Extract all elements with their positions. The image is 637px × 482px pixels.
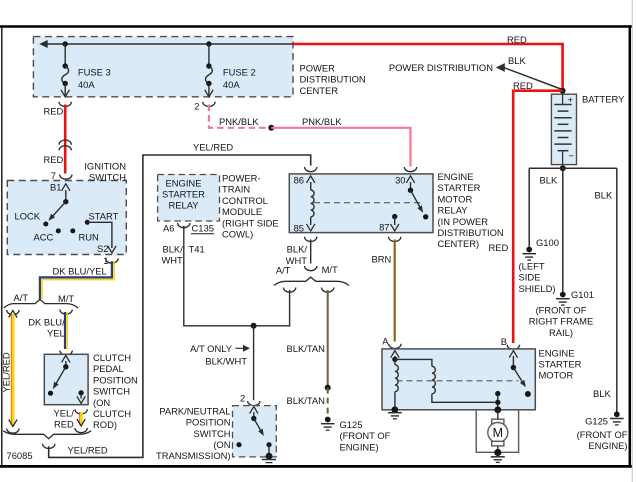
svg-text:(FRONT OF: (FRONT OF bbox=[340, 430, 391, 441]
svg-text:M: M bbox=[493, 426, 503, 440]
svg-text:RELAY: RELAY bbox=[168, 200, 199, 211]
wire PNK/BLK dashed bbox=[209, 105, 271, 128]
wire battery negative bus bbox=[529, 167, 617, 169]
svg-text:(FRONT OF: (FRONT OF bbox=[577, 429, 628, 440]
connector clutch switch top bbox=[60, 351, 72, 356]
connector M/T branch relay bbox=[322, 288, 334, 293]
svg-text:DISTRIBUTION: DISTRIBUTION bbox=[438, 227, 504, 238]
svg-text:RED: RED bbox=[513, 80, 533, 91]
starter solenoid coil 2 bbox=[432, 366, 435, 394]
starter node A bbox=[392, 357, 397, 362]
svg-text:G125: G125 bbox=[585, 416, 608, 427]
svg-text:RED: RED bbox=[54, 419, 74, 430]
wire to coil 2 bbox=[395, 359, 432, 366]
P/N contact left bbox=[236, 442, 241, 447]
svg-text:(ON: (ON bbox=[213, 439, 230, 450]
svg-text:ENGINE: ENGINE bbox=[166, 177, 202, 188]
svg-text:B1: B1 bbox=[50, 182, 61, 193]
border frame bbox=[0, 25, 632, 28]
svg-text:(FRONT OF: (FRONT OF bbox=[536, 305, 587, 316]
clutch output arrow bbox=[80, 393, 82, 399]
wire YEL/RED to relay pin 86 bbox=[49, 155, 311, 457]
svg-text:PNK/BLK: PNK/BLK bbox=[219, 116, 259, 127]
svg-text:SWITCH: SWITCH bbox=[194, 428, 231, 439]
wire DK BLU/YEL bbox=[40, 261, 112, 299]
svg-text:STARTER: STARTER bbox=[162, 189, 205, 200]
svg-text:(RIGHT SIDE: (RIGHT SIDE bbox=[222, 217, 279, 228]
svg-text:C135: C135 bbox=[192, 223, 214, 234]
svg-text:PARK/NEUTRAL: PARK/NEUTRAL bbox=[159, 405, 230, 416]
wire BLK/WHT A6 to junction bbox=[184, 226, 251, 326]
starter pivot B bbox=[511, 365, 516, 370]
svg-text:BLK/: BLK/ bbox=[287, 243, 308, 254]
svg-text:(ON: (ON bbox=[93, 397, 110, 408]
START contact bbox=[85, 220, 90, 225]
svg-text:ENGINE: ENGINE bbox=[539, 347, 575, 358]
svg-text:YEL: YEL bbox=[47, 328, 65, 339]
svg-text:85: 85 bbox=[294, 223, 304, 234]
starter coil1 ground node bbox=[392, 406, 399, 413]
park/neutral position switch box bbox=[233, 406, 277, 457]
connector relay pin 85 bbox=[305, 237, 317, 242]
svg-text:A6: A6 bbox=[163, 223, 174, 234]
starter coil1 ground bbox=[388, 412, 402, 414]
connector starter pin A bbox=[389, 344, 401, 349]
wire BLK/WHT to park/neutral switch bbox=[253, 326, 255, 400]
svg-text:BLK: BLK bbox=[508, 55, 526, 66]
svg-text:CLUTCH: CLUTCH bbox=[93, 352, 131, 363]
svg-text:RED: RED bbox=[507, 34, 527, 45]
wire BLK/TAN dashed to ground bbox=[327, 388, 329, 417]
motor brush bottom bbox=[492, 441, 504, 446]
ground G100 bbox=[526, 247, 532, 253]
svg-text:30: 30 bbox=[395, 174, 405, 185]
svg-text:B: B bbox=[501, 336, 507, 347]
starter contact node bbox=[495, 391, 500, 396]
svg-text:G100: G100 bbox=[536, 237, 559, 248]
wire BLK to G101 bbox=[562, 168, 564, 291]
connector merge output bbox=[43, 444, 55, 449]
wire DK BLU/YEL to clutch switch bbox=[64, 312, 66, 349]
ground G101 bbox=[560, 292, 566, 298]
connector A/T branch top bbox=[7, 310, 19, 315]
svg-text:POWER-: POWER- bbox=[222, 173, 261, 184]
battery B+ box bbox=[551, 94, 576, 164]
relay pin 87 node bbox=[392, 214, 397, 219]
engine starter relay dashed box bbox=[158, 175, 220, 222]
svg-text:BLK/: BLK/ bbox=[162, 243, 183, 254]
connector pin 2 below fuse F2 bbox=[203, 102, 215, 107]
engine starter motor box bbox=[382, 349, 535, 410]
ignition switch blade bbox=[50, 202, 66, 220]
svg-text:ACC: ACC bbox=[34, 232, 54, 243]
svg-text:YEL/: YEL/ bbox=[53, 408, 74, 419]
svg-text:MOTOR: MOTOR bbox=[438, 193, 473, 204]
relay link dashed bbox=[314, 202, 424, 204]
svg-text:WHT: WHT bbox=[161, 255, 183, 266]
clutch pedal position switch box bbox=[44, 354, 88, 404]
svg-text:PEDAL: PEDAL bbox=[93, 363, 124, 374]
connector clutch output bottom bbox=[75, 428, 87, 433]
svg-text:POSITION: POSITION bbox=[186, 417, 231, 428]
svg-text:ENGINE: ENGINE bbox=[438, 171, 474, 182]
svg-text:SIDE: SIDE bbox=[519, 272, 541, 283]
svg-text:TRAIN: TRAIN bbox=[222, 184, 250, 195]
relay pin 85 arrow bbox=[310, 217, 312, 225]
battery plates bbox=[562, 94, 564, 104]
starter node coil2-motor bbox=[495, 400, 500, 405]
ACC contact bbox=[56, 228, 61, 233]
svg-text:CONTROL: CONTROL bbox=[222, 195, 268, 206]
fuse F2 40A bbox=[208, 44, 210, 66]
wire RED fuse bus to battery bbox=[293, 44, 563, 89]
svg-text:87: 87 bbox=[379, 222, 389, 233]
starter solenoid coil 1 bbox=[394, 359, 396, 364]
svg-text:POWER DISTRIBUTION: POWER DISTRIBUTION bbox=[389, 62, 493, 73]
svg-text:RUN: RUN bbox=[79, 232, 99, 243]
svg-text:40A: 40A bbox=[223, 79, 240, 90]
wire P/N to ground bbox=[268, 445, 270, 456]
svg-text:2: 2 bbox=[240, 393, 245, 404]
connector pin85 lower bbox=[305, 266, 317, 271]
svg-text:COWL): COWL) bbox=[222, 229, 253, 240]
connector clutch output bbox=[75, 409, 87, 414]
P/N contact right bbox=[266, 442, 271, 447]
svg-text:IGNITION: IGNITION bbox=[84, 161, 126, 172]
svg-text:1: 1 bbox=[103, 255, 108, 266]
wire BLK/TAN M/T branch bbox=[327, 290, 329, 388]
starter node motor top bbox=[494, 406, 501, 413]
connector below fuse F3 bbox=[59, 102, 71, 107]
svg-text:RIGHT FRAME: RIGHT FRAME bbox=[529, 316, 593, 327]
svg-text:STARTER: STARTER bbox=[438, 182, 481, 193]
splice node on PNK/BLK bbox=[268, 125, 274, 131]
svg-text:G125: G125 bbox=[340, 419, 363, 430]
A/T M/T option split 2 bbox=[274, 277, 349, 285]
relay pin 86 arrow bbox=[310, 182, 312, 190]
relay pin 30 arrow bbox=[410, 182, 412, 190]
svg-text:PNK/BLK: PNK/BLK bbox=[302, 116, 342, 127]
wire PNK/BLK solid to relay pin 30 bbox=[271, 128, 410, 167]
motor M1 body bbox=[488, 423, 508, 443]
A/T M/T option split bbox=[4, 299, 78, 308]
wire BRN relay 87 to starter A bbox=[394, 240, 396, 342]
clutch switch entry arrow bbox=[65, 361, 67, 367]
svg-text:BLK/WHT: BLK/WHT bbox=[205, 356, 247, 367]
svg-text:ENGINE): ENGINE) bbox=[340, 441, 379, 452]
ignition switch box bbox=[7, 181, 126, 255]
svg-text:7: 7 bbox=[51, 170, 56, 181]
junction node A/T-PCM bbox=[251, 323, 257, 329]
wire BLK to G100 bbox=[528, 168, 530, 247]
svg-text:A/T: A/T bbox=[276, 264, 291, 275]
svg-text:ROD): ROD) bbox=[93, 419, 117, 430]
wire BLK to G125 right bbox=[616, 168, 618, 411]
motor brush top bbox=[492, 419, 504, 424]
motor enclosure bbox=[476, 410, 518, 453]
A/T M/T option merge bbox=[3, 431, 91, 439]
starter blade contact bbox=[525, 391, 531, 397]
relay blade bbox=[411, 190, 423, 211]
wire YEL/RED clutch output bbox=[79, 412, 81, 425]
wire YEL/RED left run bbox=[11, 314, 13, 425]
connector starter pin B bbox=[507, 345, 519, 350]
starter pin A arrow bbox=[394, 356, 396, 359]
motor feed wire bbox=[497, 410, 499, 419]
motor ground node bbox=[494, 449, 501, 456]
starter blade bbox=[513, 368, 524, 386]
fuse F3 40A bbox=[64, 44, 66, 66]
P/N entry arrow bbox=[253, 412, 255, 419]
svg-text:RED: RED bbox=[44, 154, 64, 165]
clutch contact right bbox=[79, 390, 84, 395]
svg-text:DK BLU/: DK BLU/ bbox=[28, 317, 65, 328]
svg-text:CENTER): CENTER) bbox=[438, 238, 480, 249]
relay pivot 30 bbox=[408, 188, 413, 193]
svg-text:YEL/RED: YEL/RED bbox=[68, 445, 108, 456]
motor ground wire bbox=[497, 446, 499, 452]
svg-text:76085: 76085 bbox=[7, 450, 33, 461]
svg-text:G101: G101 bbox=[571, 289, 594, 300]
svg-text:BLK: BLK bbox=[595, 190, 613, 201]
svg-text:M/T: M/T bbox=[322, 264, 338, 275]
wire RED fuse3 to connector bbox=[64, 105, 67, 174]
node battery negative bbox=[560, 165, 566, 171]
node BLK/TAN splice bbox=[325, 385, 331, 391]
svg-text:(LEFT: (LEFT bbox=[519, 261, 545, 272]
svg-text:LOCK: LOCK bbox=[15, 211, 41, 222]
svg-text:BLK/TAN: BLK/TAN bbox=[287, 343, 325, 354]
relay coil bbox=[311, 190, 314, 217]
wire starter contact to motor bbox=[497, 394, 499, 410]
svg-text:A/T ONLY: A/T ONLY bbox=[190, 343, 233, 354]
clutch contact left bbox=[48, 391, 53, 396]
svg-text:A/T: A/T bbox=[14, 292, 29, 303]
node battery positive bbox=[560, 88, 566, 94]
ground G125 right bbox=[614, 411, 620, 417]
svg-text:RED: RED bbox=[44, 106, 64, 117]
wire - PDC feed bus bbox=[42, 43, 294, 45]
svg-text:START: START bbox=[89, 211, 119, 222]
ignition B1 arrow bbox=[65, 190, 67, 202]
svg-text:DK BLU/YEL: DK BLU/YEL bbox=[53, 266, 107, 277]
clutch switch pivot bbox=[63, 364, 68, 369]
ground G125 left bbox=[325, 417, 331, 423]
svg-text:YEL/RED: YEL/RED bbox=[1, 352, 12, 392]
svg-text:POWER: POWER bbox=[300, 63, 336, 74]
svg-text:BLK: BLK bbox=[593, 388, 611, 399]
wire BLK battery to power distribution bbox=[505, 68, 563, 90]
node fuse3 top bbox=[62, 41, 67, 46]
connector pin A6 / C135 bbox=[178, 223, 190, 228]
starter pin B arrow bbox=[512, 356, 514, 368]
clutch switch blade bbox=[54, 367, 66, 388]
P/N blade bbox=[254, 419, 263, 435]
P/N ground bbox=[266, 453, 273, 460]
svg-text:S2: S2 bbox=[97, 243, 108, 254]
svg-text:RAIL): RAIL) bbox=[549, 327, 573, 338]
connector pin 7 ignition switch bbox=[60, 175, 72, 180]
svg-text:−: − bbox=[569, 151, 575, 162]
P/N pivot bbox=[251, 416, 256, 421]
starter link dashed bbox=[397, 380, 519, 382]
connector pin 1 ignition bbox=[106, 259, 118, 264]
svg-text:DISTRIBUTION: DISTRIBUTION bbox=[300, 74, 366, 85]
RUN contact bbox=[70, 228, 75, 233]
svg-text:BLK: BLK bbox=[540, 175, 558, 186]
svg-text:SWITCH: SWITCH bbox=[89, 172, 126, 183]
bus arrowhead bbox=[39, 40, 48, 48]
wire BLK/WHT A/T branch bbox=[254, 290, 290, 326]
svg-text:FUSE 2: FUSE 2 bbox=[223, 67, 256, 78]
svg-text:ENGINE): ENGINE) bbox=[588, 440, 627, 451]
svg-text:STARTER: STARTER bbox=[539, 359, 582, 370]
svg-text:86: 86 bbox=[294, 174, 304, 185]
svg-text:BLK/TAN: BLK/TAN bbox=[287, 395, 325, 406]
svg-text:YEL/RED: YEL/RED bbox=[193, 142, 233, 153]
engine starter motor relay box bbox=[289, 174, 433, 233]
relay pin 87 arrow bbox=[394, 217, 396, 225]
relay contact bbox=[423, 214, 428, 219]
svg-text:T41: T41 bbox=[189, 243, 205, 254]
svg-text:POSITION: POSITION bbox=[93, 374, 138, 385]
wire coil2 to motor feed bbox=[432, 394, 498, 403]
LOCK contact bbox=[43, 222, 48, 227]
connector A/T branch relay bbox=[283, 288, 295, 293]
connector pin 2 park/neutral bbox=[248, 401, 260, 406]
svg-text:CENTER: CENTER bbox=[300, 85, 339, 96]
node fuse2 top bbox=[206, 41, 211, 46]
power distribution center box (PDC) bbox=[33, 37, 293, 97]
svg-text:TRANSMISSION): TRANSMISSION) bbox=[156, 450, 230, 461]
ignition switch pivot bbox=[63, 199, 68, 204]
svg-text:FUSE 3: FUSE 3 bbox=[78, 67, 111, 78]
wire RED battery to starter motor B bbox=[513, 91, 562, 343]
svg-text:RELAY: RELAY bbox=[438, 205, 469, 216]
motor ground bbox=[491, 456, 505, 458]
svg-text:2: 2 bbox=[194, 101, 199, 112]
connector relay pin 86 bbox=[305, 167, 317, 172]
connector relay pin 30 bbox=[404, 167, 416, 172]
svg-text:MODULE: MODULE bbox=[222, 206, 262, 217]
connector relay pin 87 bbox=[389, 237, 401, 242]
svg-text:MOTOR: MOTOR bbox=[539, 370, 574, 381]
svg-text:M/T: M/T bbox=[58, 293, 74, 304]
svg-text:40A: 40A bbox=[78, 79, 95, 90]
svg-text:+: + bbox=[568, 95, 574, 106]
svg-text:RED: RED bbox=[489, 242, 509, 253]
svg-text:SHIELD): SHIELD) bbox=[519, 283, 556, 294]
svg-text:SWITCH: SWITCH bbox=[93, 386, 130, 397]
inline connector on RED wire bbox=[59, 140, 71, 145]
wire START to S2 bbox=[87, 222, 112, 248]
svg-text:CLUTCH: CLUTCH bbox=[93, 408, 131, 419]
svg-text:BATTERY: BATTERY bbox=[582, 94, 625, 105]
svg-text:(IN POWER: (IN POWER bbox=[438, 216, 489, 227]
connector M/T branch top bbox=[60, 310, 72, 315]
connector A/T branch bottom bbox=[7, 429, 19, 434]
wire BLK/WHT pin 85 bbox=[310, 240, 312, 264]
svg-text:BRN: BRN bbox=[372, 254, 392, 265]
